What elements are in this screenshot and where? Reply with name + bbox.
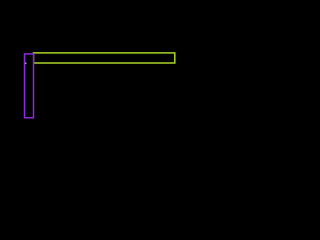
purple vertical rectangle (25, 54, 34, 118)
yellow dot (25, 63, 27, 64)
yellow-green horizontal rectangle (34, 53, 175, 63)
